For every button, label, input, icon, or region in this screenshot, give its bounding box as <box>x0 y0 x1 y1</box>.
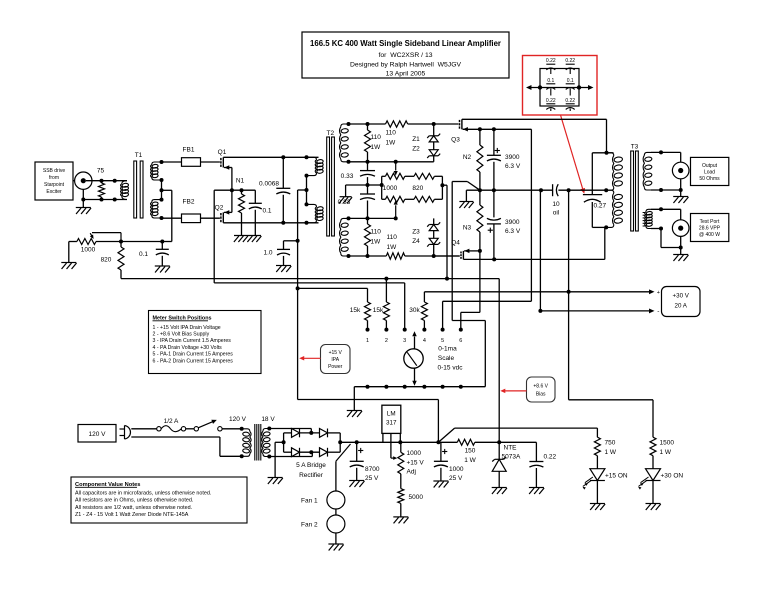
wire Q3 source row <box>463 128 532 130</box>
wire test top <box>651 208 681 210</box>
wire Q1 drain row <box>223 156 318 158</box>
detail inner loop rectangle <box>540 69 579 107</box>
svg-text:Z1 - Z4 - 15 Volt 1 Watt Zener: Z1 - Z4 - 15 Volt 1 Watt Zener Diode NTE… <box>75 512 189 518</box>
svg-text:Z2: Z2 <box>412 146 420 153</box>
T1 tap column wire <box>161 180 163 200</box>
svg-text:Exciter: Exciter <box>46 189 62 195</box>
wire Q3 drain to T3 <box>462 118 607 120</box>
ground N1 wide <box>234 235 261 237</box>
common contact 4 <box>422 385 426 389</box>
diode D4 <box>320 448 328 457</box>
resistor N1 shunt <box>241 190 243 194</box>
meter M1 <box>404 349 423 368</box>
resistor 150 1W <box>457 439 475 445</box>
node lr1 <box>347 216 351 220</box>
svg-text:3900: 3900 <box>505 219 520 226</box>
svg-text:SSB drive: SSB drive <box>43 168 65 174</box>
svg-text:13 April 2005: 13 April 2005 <box>386 71 426 78</box>
node T3 center tap <box>604 188 608 192</box>
svg-text:18 V: 18 V <box>261 416 275 423</box>
svg-text:+15 ON: +15 ON <box>605 473 628 480</box>
svg-text:28.6 VPP: 28.6 VPP <box>699 226 721 232</box>
node gb3 <box>432 254 436 258</box>
svg-text:All resistors are 1/2 watt, un: All resistors are 1/2 watt, unless other… <box>75 505 192 511</box>
Meter Switch Positions box <box>149 311 262 374</box>
node N1 b <box>240 188 244 192</box>
wire upper return row <box>349 161 434 163</box>
svg-text:3 - IPA Drain Current 1.5 Ampe: 3 - IPA Drain Current 1.5 Amperes <box>153 338 232 344</box>
node N1 a <box>230 188 234 192</box>
svg-text:FB1: FB1 <box>183 147 195 154</box>
svg-text:Z1: Z1 <box>412 136 420 143</box>
Test Port box <box>691 214 729 242</box>
diode D2 <box>320 429 328 438</box>
svg-text:LM: LM <box>387 411 396 418</box>
svg-text:3900: 3900 <box>505 154 520 161</box>
T2 primary upper winding <box>307 157 317 160</box>
svg-text:0.1: 0.1 <box>139 251 148 258</box>
node tp2 <box>659 227 663 231</box>
common contact 5 <box>441 385 445 389</box>
ground node A <box>459 201 473 203</box>
svg-text:Z3: Z3 <box>412 229 420 236</box>
node out1 <box>659 150 663 154</box>
svg-text:4 - PA Drain Voltage +30 Volts: 4 - PA Drain Voltage +30 Volts <box>153 345 223 351</box>
T3 core <box>631 151 634 231</box>
120V source box <box>78 425 116 443</box>
node row2 c <box>113 198 117 202</box>
tap t3 center <box>160 188 164 192</box>
node drain row c <box>281 221 285 225</box>
tap t4 <box>160 198 164 202</box>
ground pot <box>61 262 76 264</box>
potentiometer 1000 top <box>385 173 404 179</box>
node pot right <box>440 183 444 187</box>
capacitor 0.1 input bias <box>161 242 163 250</box>
svg-text:20 A: 20 A <box>675 303 688 310</box>
wire input row1 <box>86 180 127 182</box>
contact 3 <box>403 328 407 332</box>
node row1 a <box>100 179 104 183</box>
tap t1 <box>160 160 164 164</box>
node A c <box>539 188 543 192</box>
common contact 1 <box>366 385 370 389</box>
ground 1000 25V <box>433 480 448 482</box>
regulator LM317 <box>382 405 401 433</box>
wire secondary bottom to bridge <box>269 456 312 458</box>
svg-text:1000: 1000 <box>407 450 422 457</box>
bridge upper branch <box>284 432 292 434</box>
svg-text:Starpoint: Starpoint <box>44 182 65 188</box>
wire node A branch <box>451 182 453 321</box>
T2 secondary lower winding <box>341 218 349 221</box>
wire node A row <box>466 189 552 191</box>
node t3p bottom <box>604 225 608 229</box>
svg-text:0.22: 0.22 <box>565 58 575 64</box>
resistor 110 1W series top <box>386 121 408 127</box>
wire center tap +15V feed <box>298 189 307 191</box>
wire Q4 drain row <box>463 258 604 260</box>
wire contact3 riser <box>404 283 406 330</box>
ground NTE <box>492 487 507 489</box>
svg-text:+8.6 V: +8.6 V <box>533 384 548 390</box>
T1 secondary lower winding <box>152 200 162 203</box>
wire test bottom <box>651 228 661 230</box>
node lm out <box>398 440 402 444</box>
test port connector <box>680 209 682 220</box>
bias distribution line +8.6V <box>121 278 499 280</box>
node ur1 <box>347 160 351 164</box>
ground LED1 <box>590 503 605 505</box>
input connector J1 <box>73 180 75 182</box>
red detail box <box>523 56 598 116</box>
wire fans diagonal <box>336 444 351 461</box>
svg-text:820: 820 <box>412 185 423 192</box>
wire T3 primary top <box>592 152 613 154</box>
svg-text:0.22: 0.22 <box>546 58 556 64</box>
svg-text:120 V: 120 V <box>89 431 107 438</box>
svg-text:110: 110 <box>371 229 382 236</box>
svg-text:N2: N2 <box>463 154 472 161</box>
T3 primary lower winding <box>606 190 614 193</box>
svg-text:1.0: 1.0 <box>263 250 272 257</box>
potentiometer 1000 +15V Adj <box>400 442 402 452</box>
node row2 b <box>100 198 104 202</box>
T3 primary upper winding <box>607 153 614 156</box>
svg-text:@ 400 W: @ 400 W <box>699 232 720 238</box>
svg-text:10: 10 <box>552 201 560 208</box>
red arrow +8.6V Bias <box>504 390 527 392</box>
capacitor 3900 6.3V upper <box>495 150 500 152</box>
capacitor 0.33 upper <box>367 162 369 171</box>
node q4s <box>478 249 482 253</box>
tap t5 <box>160 216 164 220</box>
wire oil cap to center tap <box>558 189 606 191</box>
T3 secondary upper winding <box>644 152 651 155</box>
node 30 rail <box>567 290 571 294</box>
node bridge plus <box>338 440 342 444</box>
red callout arrow to 0.27 capacitor <box>561 115 584 192</box>
+8.6V Bias box <box>527 377 556 402</box>
wire output top <box>651 151 681 153</box>
resistor 820 <box>120 242 122 248</box>
svg-text:0.0068: 0.0068 <box>259 181 279 188</box>
svg-text:1000: 1000 <box>449 466 464 473</box>
svg-text:T2: T2 <box>327 130 335 137</box>
SSB drive source box <box>35 162 73 200</box>
svg-text:0.33: 0.33 <box>338 199 351 206</box>
ground LED2 <box>646 503 661 505</box>
node bridge ac2 <box>309 450 313 454</box>
svg-text:Q3: Q3 <box>451 137 460 144</box>
svg-text:1W: 1W <box>386 140 397 147</box>
svg-text:-: - <box>657 308 659 315</box>
svg-text:IPA: IPA <box>331 357 339 363</box>
svg-text:1 - +15 Volt IPA Drain Voltage: 1 - +15 Volt IPA Drain Voltage <box>153 325 221 331</box>
wire mid ground stub <box>346 184 368 186</box>
node +15V <box>436 440 440 444</box>
node drain row d <box>305 221 309 225</box>
LM317 input lead <box>382 433 384 442</box>
svg-text:0.1: 0.1 <box>567 78 574 84</box>
Component Value Notes box <box>71 477 247 523</box>
capacitor 1000 25V <box>442 451 447 453</box>
diode D1 <box>292 429 300 438</box>
power transformer secondary <box>267 427 271 431</box>
svg-text:for WC2XSR / 13: for WC2XSR / 13 <box>378 52 432 59</box>
gate bias pot network frame <box>382 175 386 177</box>
ground meter common <box>347 410 362 412</box>
svg-text:6 - PA-2 Drain Current 15 Ampe: 6 - PA-2 Drain Current 15 Amperes <box>153 358 234 364</box>
wire plug bottom <box>131 436 220 438</box>
wire N1 row <box>232 189 255 191</box>
resistor 820 bottom <box>414 196 434 202</box>
LED +30 ON <box>646 469 661 481</box>
svg-text:Designed by Ralph Hartwell W5: Designed by Ralph Hartwell W5JGV <box>350 62 462 69</box>
svg-text:120 V: 120 V <box>229 416 247 423</box>
common contact 6 <box>459 385 463 389</box>
AC plug <box>120 428 125 430</box>
wire Q4 source <box>464 250 480 252</box>
wire Q4 gate <box>434 255 460 257</box>
LM317 adj lead <box>390 433 392 458</box>
svg-text:T3: T3 <box>631 144 639 151</box>
wire minus riser <box>539 190 541 311</box>
red arrow +15V IPA <box>303 357 321 359</box>
pot wiper bottom arrow <box>395 205 397 218</box>
potentiometer 1000 bottom <box>385 196 404 202</box>
pot wiper top arrow <box>395 162 397 171</box>
svg-text:1W: 1W <box>371 239 382 246</box>
capacitor 0.27 <box>591 153 593 195</box>
pot 1000 wiper <box>92 232 121 234</box>
power transformer core <box>254 424 256 461</box>
power transformer primary <box>240 427 244 431</box>
junction right <box>577 85 581 89</box>
meter arrow up <box>414 337 416 350</box>
node row2 a <box>81 198 85 202</box>
bridge left side <box>283 433 285 452</box>
ground divider small <box>340 196 352 198</box>
svg-text:1W: 1W <box>371 144 382 151</box>
ground bridge minus <box>268 477 283 479</box>
svg-text:1: 1 <box>366 338 369 344</box>
svg-text:0.27: 0.27 <box>594 203 607 210</box>
node gr1 <box>347 122 351 126</box>
node t3p top <box>605 151 609 155</box>
ground 0.22 <box>529 487 544 489</box>
ground 5000 <box>393 516 408 518</box>
svg-text:4: 4 <box>423 338 426 344</box>
svg-text:0.33: 0.33 <box>341 173 354 180</box>
svg-text:317: 317 <box>386 420 397 427</box>
capacitor 3900 6.3V lower <box>493 190 495 217</box>
node drain row a <box>281 155 285 159</box>
svg-text:5 - PA-1 Drain Current 15 Ampe: 5 - PA-1 Drain Current 15 Amperes <box>153 352 234 358</box>
node NTE <box>497 440 501 444</box>
node bias to pot network <box>445 277 449 281</box>
resistor 1500 1W <box>650 437 656 456</box>
contact 6 <box>459 328 463 332</box>
ground input <box>76 207 91 209</box>
common contact 2 <box>384 385 388 389</box>
capacitor 8700 25V <box>358 450 363 452</box>
svg-text:0.22: 0.22 <box>546 98 556 104</box>
svg-text:150: 150 <box>465 448 476 455</box>
resistor 110 1W shunt bottom <box>367 218 369 224</box>
node minus <box>538 309 542 313</box>
svg-text:Rectifier: Rectifier <box>299 472 324 479</box>
node drain row b <box>305 155 309 159</box>
node 1.0 cap <box>296 239 300 243</box>
svg-text:FB2: FB2 <box>183 199 195 206</box>
capacitor 0.1 N1 <box>254 190 256 203</box>
node bridge minus <box>282 440 286 444</box>
svg-text:All resistors are in Ohms, unl: All resistors are in Ohms, unless otherw… <box>75 498 193 504</box>
svg-text:NTE: NTE <box>504 445 518 452</box>
resistor 820 top <box>414 173 434 179</box>
T2 primary lower winding <box>307 204 317 207</box>
svg-text:1/2 A: 1/2 A <box>164 418 179 425</box>
svg-text:6.3 V: 6.3 V <box>505 228 521 235</box>
svg-text:0.1: 0.1 <box>547 78 554 84</box>
svg-text:1000: 1000 <box>383 185 398 192</box>
svg-text:750: 750 <box>605 440 616 447</box>
svg-text:from: from <box>49 175 59 181</box>
svg-text:110: 110 <box>386 130 397 137</box>
node bridge ac1 <box>309 431 313 435</box>
svg-text:6: 6 <box>459 338 462 344</box>
node wiper bottom <box>394 216 398 220</box>
ground 0.1 cap <box>155 265 170 267</box>
wire 15k1 feed <box>298 287 368 289</box>
svg-text:Output: Output <box>702 163 718 169</box>
node q3s a <box>478 127 482 131</box>
T2 secondary upper winding <box>341 124 349 127</box>
+30V rail <box>424 291 652 293</box>
svg-text:1500: 1500 <box>660 440 675 447</box>
T1 secondary upper winding <box>152 162 162 165</box>
wire +15V IPA feed lower <box>298 399 439 401</box>
svg-text:Fan 2: Fan 2 <box>301 522 318 529</box>
resistor 110 1W series bottom <box>386 253 405 259</box>
svg-text:1 W: 1 W <box>605 449 617 456</box>
output connector <box>680 152 682 162</box>
DC rail +18V <box>340 441 457 443</box>
contact 2 <box>384 328 388 332</box>
wire switch to xfmr <box>222 428 242 430</box>
wire common ground riser <box>353 387 355 411</box>
svg-text:2: 2 <box>385 338 388 344</box>
svg-text:5 A Bridge: 5 A Bridge <box>296 462 326 469</box>
svg-text:Power: Power <box>328 364 343 370</box>
node pri t1 <box>305 174 309 178</box>
svg-text:+30 V: +30 V <box>673 293 690 300</box>
diode D3 <box>292 448 300 457</box>
wire T1 center tap to bias node <box>162 189 172 191</box>
svg-text:5: 5 <box>441 338 444 344</box>
svg-text:5000: 5000 <box>409 494 424 501</box>
wire plug to fuse <box>131 428 156 430</box>
node divider mid b <box>380 183 384 187</box>
resistor 750 1W <box>594 437 600 456</box>
T1 core <box>134 161 137 218</box>
capacitor 0.33 lower <box>367 185 369 194</box>
capacitor 10 oil <box>552 184 554 196</box>
svg-text:Scale: Scale <box>438 355 455 362</box>
LM317 output lead <box>399 433 401 442</box>
ground 8700 <box>349 480 364 482</box>
node tp1 <box>659 207 663 211</box>
node q4d <box>492 257 496 261</box>
svg-text:110: 110 <box>387 234 398 241</box>
wire secondary top to bridge <box>269 428 311 430</box>
svg-text:1000: 1000 <box>81 247 96 254</box>
node gb1 <box>347 254 351 258</box>
svg-text:3: 3 <box>403 338 406 344</box>
wire connector ground stem <box>82 189 84 207</box>
node ur3 <box>394 160 398 164</box>
svg-text:110: 110 <box>371 134 382 141</box>
T1 primary winding <box>122 181 127 184</box>
node gr3 <box>432 122 436 126</box>
svg-text:0.22: 0.22 <box>565 98 575 104</box>
+15V IPA Power box <box>321 345 351 374</box>
ground output <box>673 196 688 198</box>
svg-text:1 W: 1 W <box>660 449 672 456</box>
wire Q3 source sense <box>530 129 532 301</box>
wire Q4 source sense riser <box>479 251 481 313</box>
switch common row <box>354 386 485 388</box>
svg-text:75: 75 <box>97 168 105 175</box>
bridge lower branch <box>284 451 292 453</box>
input bias potentiometer 1000 <box>69 241 77 243</box>
wire N1 to meter line <box>214 189 232 191</box>
capacitor 0.22 bias <box>535 442 537 461</box>
svg-text:Fan 1: Fan 1 <box>301 498 318 505</box>
tap t2 <box>160 178 164 182</box>
wire Q2 drain row <box>223 222 318 224</box>
svg-text:0-1ma: 0-1ma <box>438 346 457 353</box>
svg-text:T1: T1 <box>135 152 143 159</box>
wire node A ground stub <box>465 190 467 201</box>
node pri t2 <box>305 202 309 206</box>
svg-text:15k: 15k <box>350 307 361 314</box>
node q3s b <box>492 127 496 131</box>
capacitor 1.0 <box>284 240 298 242</box>
svg-text:Z4: Z4 <box>412 238 420 245</box>
node out2 <box>659 188 663 192</box>
svg-text:Q1: Q1 <box>218 149 227 156</box>
wire output bottom <box>651 189 681 191</box>
node ct left <box>567 188 571 192</box>
minus return line <box>540 310 652 312</box>
wire +30 feed riser <box>568 190 570 400</box>
svg-text:1 W: 1 W <box>464 457 476 464</box>
svg-text:Test Port: Test Port <box>700 219 720 225</box>
fan 2 <box>327 515 345 533</box>
node gr2 <box>366 122 370 126</box>
wire pot left to ground <box>68 242 70 263</box>
meter arrow down <box>414 368 416 381</box>
power switch <box>194 427 198 431</box>
resistor 110 1W shunt top <box>367 124 369 130</box>
svg-text:Adj: Adj <box>407 469 416 476</box>
svg-text:oil: oil <box>553 210 560 217</box>
svg-text:166.5 KC 400 Watt Single Sideb: 166.5 KC 400 Watt Single Sideband Linear… <box>310 39 501 48</box>
node tp3 <box>679 246 683 250</box>
junction left <box>538 85 542 89</box>
